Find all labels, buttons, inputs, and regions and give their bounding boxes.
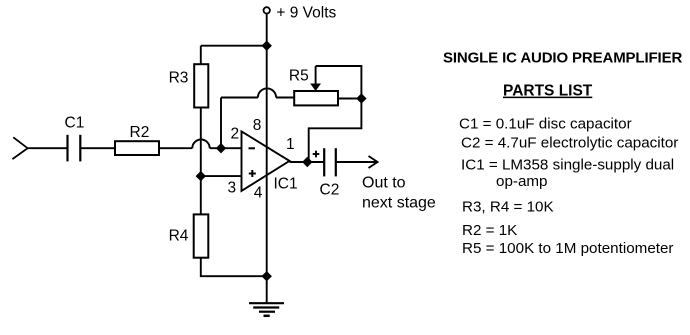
output arrowhead <box>369 156 378 168</box>
resistor R3 <box>194 64 208 107</box>
node pin2 junction <box>217 144 226 153</box>
wire R4 bottom <box>201 258 267 277</box>
svg-text:Out to: Out to <box>362 175 406 192</box>
svg-text:C2 = 4.7uF electrolytic capaci: C2 = 4.7uF electrolytic capacitor <box>461 134 678 151</box>
svg-text:SINGLE IC AUDIO PREAMPLIFIER: SINGLE IC AUDIO PREAMPLIFIER <box>443 50 682 67</box>
svg-text:R5: R5 <box>289 68 309 85</box>
svg-text:R3: R3 <box>169 70 189 87</box>
op-amp U1 triangle <box>242 131 290 191</box>
wire R5 right terminal <box>338 98 361 100</box>
svg-text:R2 = 1K: R2 = 1K <box>462 222 517 239</box>
node ground junction <box>262 272 271 281</box>
capacitor C2 <box>324 148 336 176</box>
node supply junction <box>262 41 271 50</box>
op-amp plus sign <box>249 170 256 177</box>
potentiometer R5 <box>294 91 338 105</box>
supply terminal <box>264 7 270 13</box>
svg-text:8: 8 <box>253 117 262 134</box>
wire feedback vertical <box>220 98 222 149</box>
svg-text:IC1: IC1 <box>274 176 298 193</box>
wire supply rail <box>266 14 268 277</box>
wire hop over bias rail <box>192 140 209 149</box>
svg-text:C1: C1 <box>65 114 85 131</box>
svg-text:C2: C2 <box>320 182 340 199</box>
svg-text:C1 = 0.1uF disc capacitor: C1 = 0.1uF disc capacitor <box>459 115 632 132</box>
svg-text:1: 1 <box>286 136 295 153</box>
wire input to C1 <box>28 147 68 149</box>
capacitor C1 <box>68 135 81 162</box>
node pin3 junction <box>196 172 205 181</box>
svg-text:4: 4 <box>254 185 263 202</box>
wire hop to R5 <box>276 97 294 99</box>
svg-text:3: 3 <box>228 180 237 197</box>
wire op-amp output <box>290 161 325 163</box>
svg-text:next stage: next stage <box>362 195 436 212</box>
wire hop to op-amp pin2 <box>210 147 242 149</box>
wire hop over supply rail <box>258 88 276 97</box>
wire bias rail middle <box>200 108 202 215</box>
wire C1 to R2 <box>80 147 115 149</box>
svg-text:R4: R4 <box>169 228 189 245</box>
wire output arrow <box>336 161 377 163</box>
svg-text:PARTS LIST: PARTS LIST <box>503 83 593 100</box>
C2 plus sign <box>313 151 320 158</box>
svg-text:2: 2 <box>231 126 240 143</box>
R5 wiper arrow <box>310 66 321 91</box>
svg-text:op-amp: op-amp <box>496 173 548 190</box>
svg-text:R2: R2 <box>130 124 150 141</box>
input arrow <box>12 137 27 159</box>
wire feedback horizontal <box>221 97 258 99</box>
wire R5 wiper to right terminal <box>316 66 362 99</box>
op-amp minus sign <box>249 147 256 149</box>
svg-text:R5 = 100K to 1M potentiometer: R5 = 100K to 1M potentiometer <box>462 240 673 257</box>
wire feedback to output <box>309 99 362 163</box>
resistor R4 <box>194 214 209 257</box>
wire ground stem <box>266 276 268 303</box>
ground <box>249 303 284 316</box>
wire bias top vertical <box>200 46 202 64</box>
wire pin3 <box>201 175 242 177</box>
resistor R2 <box>115 141 159 155</box>
svg-text:IC1 = LM358 single-supply dual: IC1 = LM358 single-supply dual <box>461 156 674 173</box>
wire R2 to hop <box>159 147 192 149</box>
node output junction <box>303 158 312 167</box>
wire bias top horizontal <box>201 45 267 47</box>
svg-text:+ 9 Volts: + 9 Volts <box>276 5 336 22</box>
svg-text:R3, R4 = 10K: R3, R4 = 10K <box>462 199 554 216</box>
node R5 junction <box>357 94 366 103</box>
